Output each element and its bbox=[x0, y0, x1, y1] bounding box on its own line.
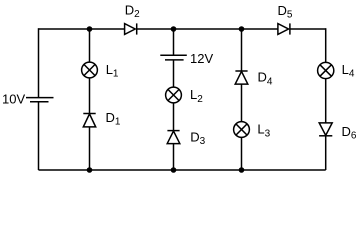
node top junction branch mid bbox=[171, 26, 177, 32]
svg-text:L2: L2 bbox=[190, 87, 203, 105]
svg-text:D1: D1 bbox=[106, 110, 121, 128]
lamp L2 bbox=[166, 87, 182, 103]
svg-text:L4: L4 bbox=[342, 62, 355, 80]
node bottom junction branch D4 bbox=[239, 167, 245, 173]
diode D4 bbox=[235, 71, 248, 84]
battery V2 12V bbox=[160, 55, 187, 60]
wire right edge upper bbox=[325, 28, 327, 62]
wire top right segment bbox=[290, 28, 326, 30]
wire top left segment bbox=[39, 28, 125, 30]
lamp L1 bbox=[82, 62, 98, 78]
svg-text:12V: 12V bbox=[190, 51, 213, 66]
wire branch L1/D1 upper bbox=[89, 29, 91, 62]
node top junction branch L1 bbox=[87, 26, 93, 32]
diode D6 bbox=[319, 123, 332, 136]
wire branch D4/L3 upper bbox=[241, 29, 243, 71]
wire L4 to D6 bbox=[325, 79, 327, 123]
node bottom junction branch L1 bbox=[87, 167, 93, 173]
wire D1 to bottom bbox=[89, 127, 91, 170]
svg-text:D2: D2 bbox=[125, 3, 140, 21]
svg-text:D3: D3 bbox=[190, 129, 205, 147]
node top junction branch D4 bbox=[239, 26, 245, 32]
diode D1 bbox=[83, 114, 95, 127]
wire L3 to bottom bbox=[241, 137, 243, 170]
lamp L3 bbox=[234, 122, 250, 138]
wire bottom bbox=[39, 169, 326, 171]
wire D3 to bottom bbox=[173, 144, 175, 170]
wire D6 to bottom bbox=[325, 136, 327, 170]
svg-text:D4: D4 bbox=[258, 70, 273, 88]
svg-text:D6: D6 bbox=[342, 124, 357, 142]
node bottom junction branch mid bbox=[171, 167, 177, 173]
lamp L4 bbox=[318, 62, 334, 78]
wire D4 to L3 bbox=[241, 84, 243, 122]
diode D3 bbox=[167, 131, 180, 144]
diode D2 bbox=[125, 23, 137, 34]
wire left edge upper bbox=[38, 28, 40, 97]
wire left edge lower bbox=[38, 102, 40, 170]
wire L1 to D1 bbox=[89, 78, 91, 114]
svg-text:L3: L3 bbox=[257, 122, 270, 140]
svg-text:D5: D5 bbox=[278, 3, 293, 21]
wire top middle segment bbox=[137, 28, 278, 30]
svg-text:L1: L1 bbox=[106, 62, 119, 80]
battery V1 10V bbox=[26, 98, 54, 102]
svg-text:10V: 10V bbox=[2, 91, 25, 106]
wire L2 to D3 bbox=[173, 103, 175, 131]
wire battery to L2 bbox=[173, 60, 175, 87]
diode D5 bbox=[278, 23, 290, 34]
wire branch mid upper bbox=[173, 29, 175, 55]
